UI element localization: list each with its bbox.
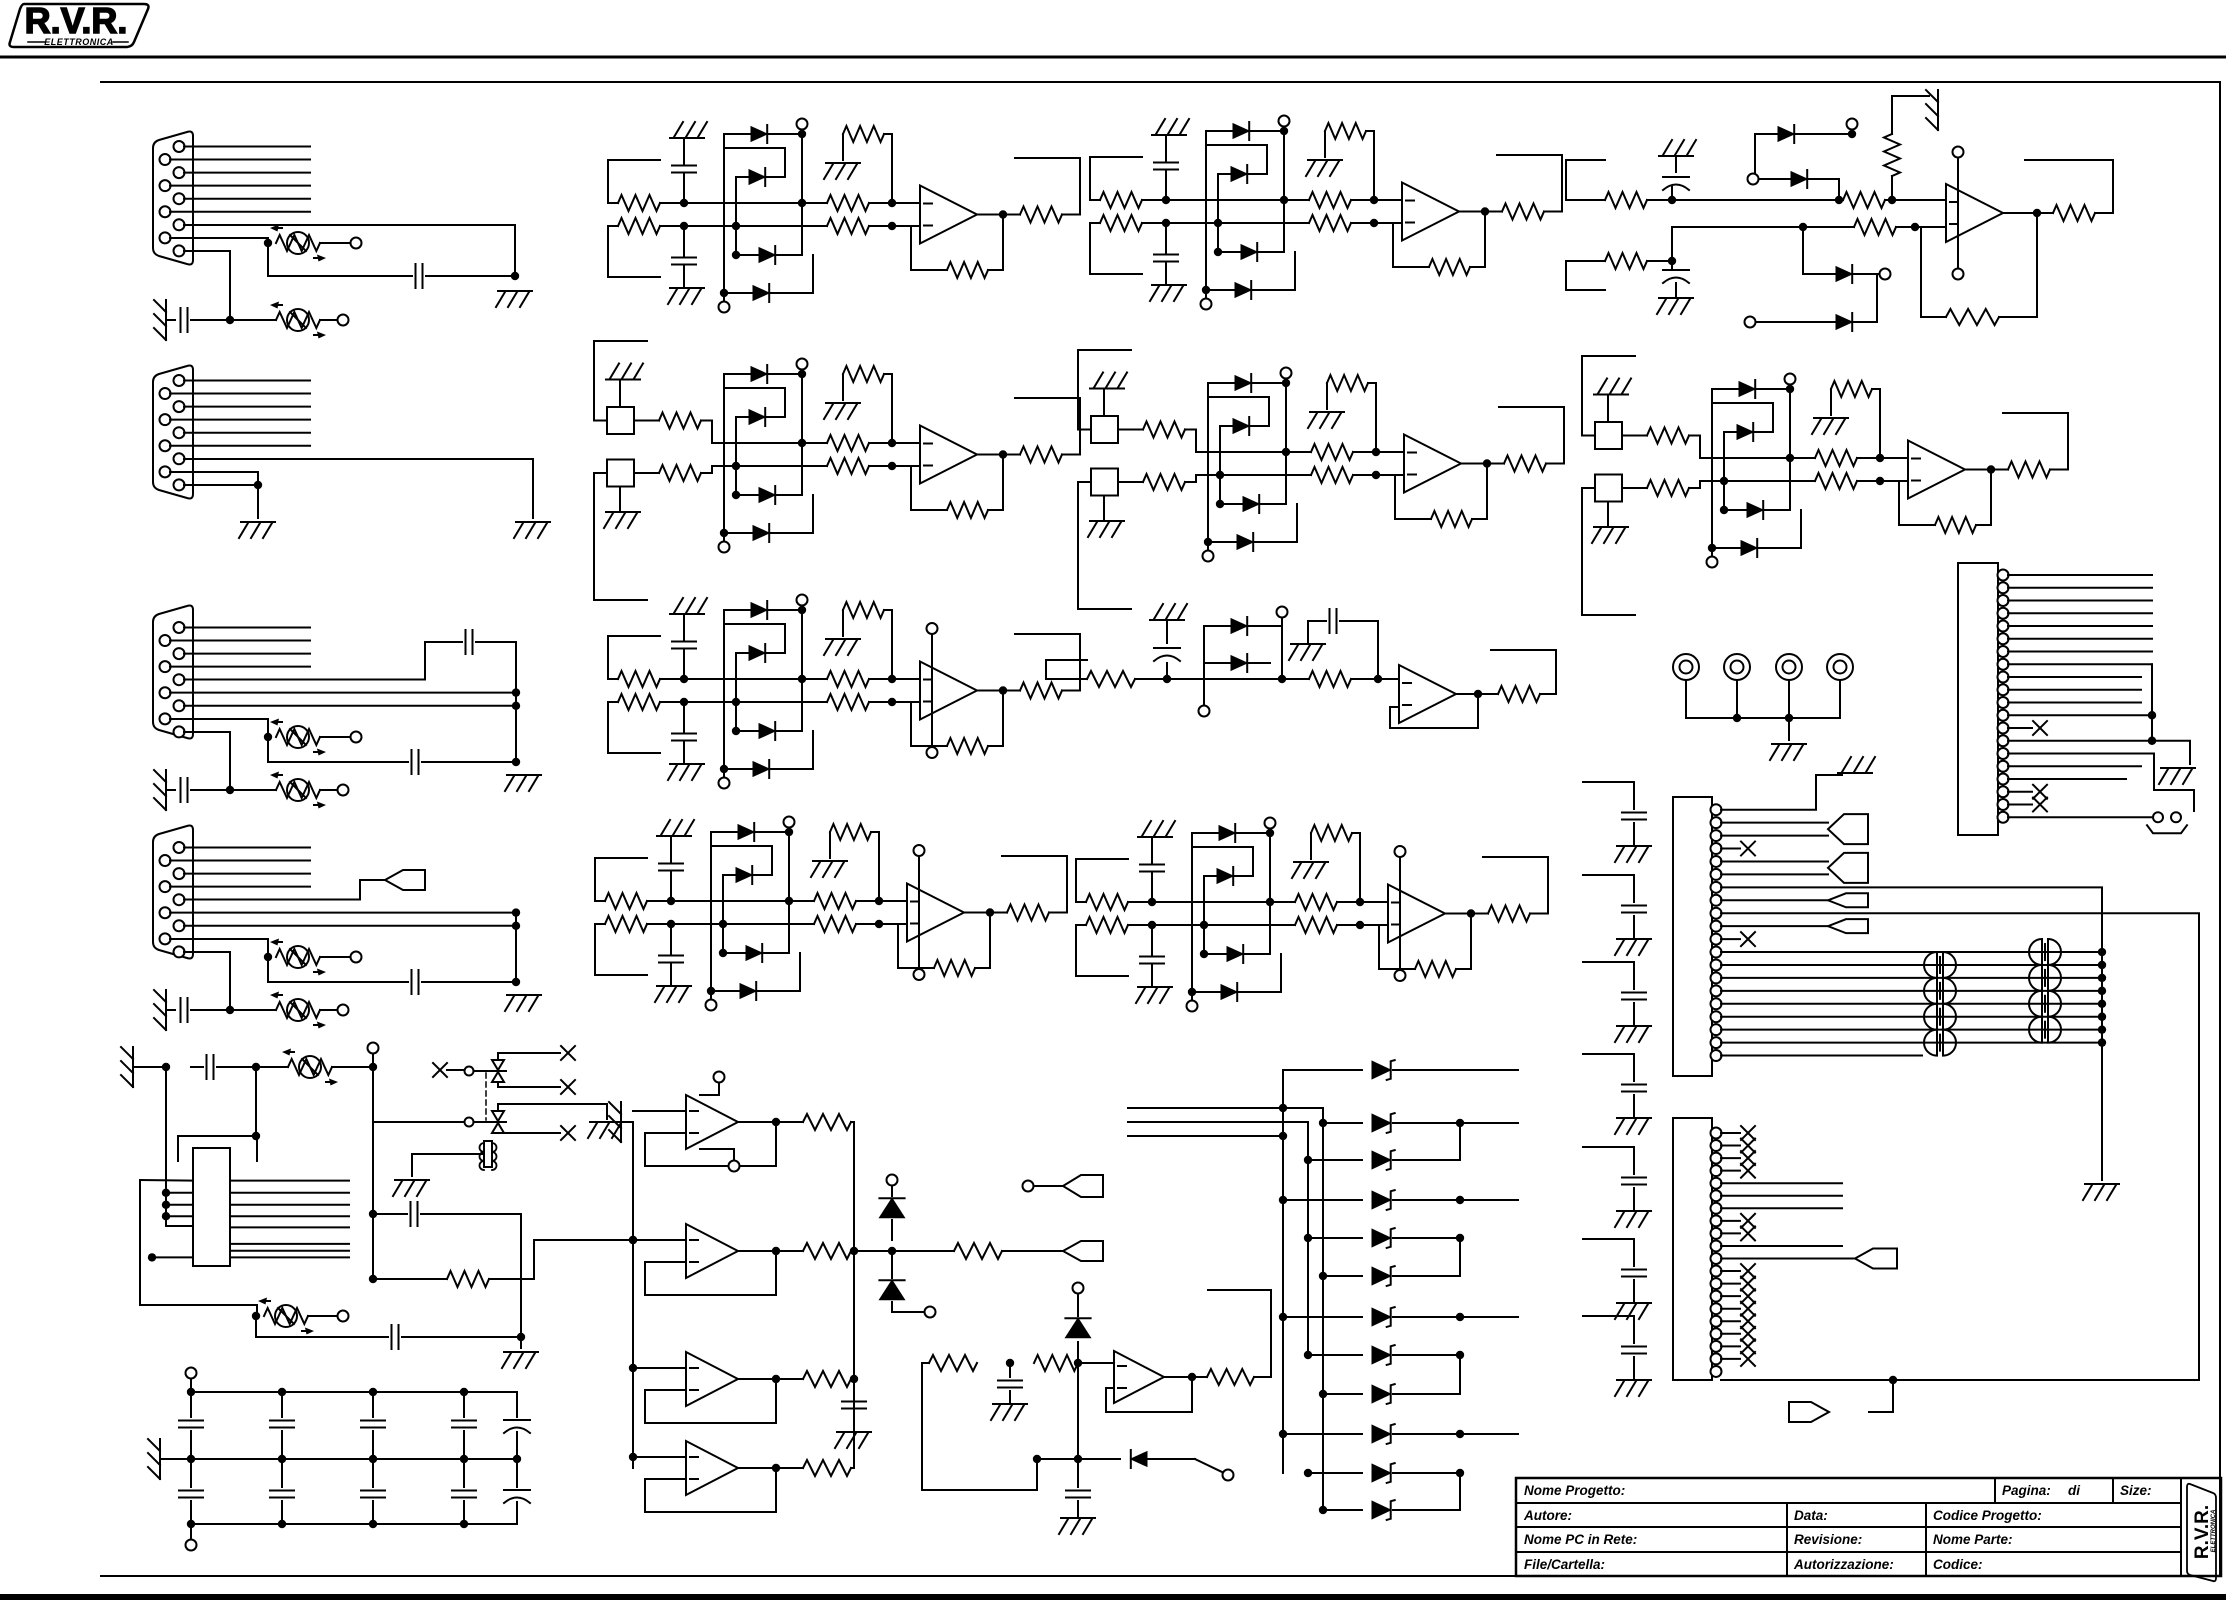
varistor RV1 <box>264 239 272 247</box>
series resistor upper U4 <box>1311 444 1353 460</box>
terminal RV8 <box>308 1315 337 1317</box>
pin J5-7 <box>1998 646 2009 657</box>
wire output U2 <box>1459 211 1502 213</box>
wire output bracket U5 <box>2003 413 2068 470</box>
wire DZ1 long <box>1393 1069 1518 1071</box>
output resistor U10 <box>2053 205 2095 221</box>
input resistor lower U2 <box>1100 215 1142 231</box>
wire U10 power <box>1957 158 1959 268</box>
wire zener feed line 1 <box>1128 1107 1323 1109</box>
terminal clamp bottom U8 <box>706 1000 717 1011</box>
wire input lines U3 <box>712 442 827 444</box>
resistor R40 <box>373 1278 447 1280</box>
capacitor lower input U9 <box>1151 925 1153 955</box>
wire J5-17 <box>2008 778 2126 780</box>
x-mark J5-19 <box>2008 804 2032 806</box>
series resistor lower U9 <box>1295 917 1337 933</box>
ground U15 C <box>993 1403 1027 1405</box>
wires J2 pins 1-6 <box>184 380 310 382</box>
wire J7-18 <box>1721 1029 2102 1031</box>
wire input lines U8 <box>699 900 814 902</box>
ground upper U2 <box>1152 134 1186 136</box>
output resistor U8 <box>1007 905 1049 921</box>
wire clamp right bus U3 <box>801 374 803 495</box>
feedback resistor U9 <box>1415 961 1456 977</box>
varistor RV2 <box>230 319 276 321</box>
capacitor C41 <box>391 1325 393 1349</box>
wire J5-14 <box>2008 740 2152 742</box>
TVS pair 2 <box>492 1111 504 1121</box>
wire J3 pin9 <box>184 732 230 790</box>
wire U7 follower feedback <box>1390 694 1478 728</box>
wire J7-2 <box>1721 822 1828 824</box>
arrow J7 C <box>1828 893 1868 907</box>
pin J8-3 <box>1711 1153 1722 1164</box>
input resistor lower U1 <box>618 218 660 234</box>
pin J7-13 <box>1711 959 1722 970</box>
IC U20 <box>193 1148 230 1266</box>
resistor R30 <box>954 1243 1002 1259</box>
pin J5-8 <box>1998 659 2009 670</box>
capacitor bank column 1 upper <box>187 1388 195 1396</box>
connector J8 box <box>1673 1118 1712 1380</box>
wire TVS2 up <box>498 1104 607 1119</box>
terminal clamp top U1 <box>797 119 808 130</box>
wire right leg <box>520 1214 522 1348</box>
output resistor U12 <box>738 1250 803 1252</box>
zener DZ8 <box>1308 1354 1362 1356</box>
terminal clamp bottom U6 <box>719 778 730 789</box>
svg-text:Data:: Data: <box>1794 1508 1828 1523</box>
wire zener pair links <box>1459 1123 1461 1160</box>
x-mark J8-15 <box>1721 1308 1740 1310</box>
ground J5 <box>2161 767 2195 769</box>
wire feedback U2 <box>1470 212 1485 268</box>
pin J8-8 <box>1711 1215 1722 1226</box>
wire J8 arrow link <box>1869 1380 1893 1412</box>
pin J8-20 <box>1711 1366 1722 1377</box>
diode clamp D1 U9 <box>1192 832 1270 834</box>
wire output bracket U3 <box>1015 398 1080 455</box>
capacitor bank column 1 lower <box>190 1459 192 1487</box>
input resistor lower U9 <box>1086 917 1128 933</box>
wire upper input bracket U6 <box>608 635 660 637</box>
output resistor U14 <box>738 1467 803 1469</box>
diode clamp D2 U2 <box>1218 173 1267 175</box>
series resistor lower U4 <box>1311 467 1353 483</box>
wire op-amp power U6 <box>931 635 933 747</box>
capacitor C4 <box>411 750 413 774</box>
ground J7-1 <box>1838 772 1872 774</box>
pin J8-14 <box>1711 1291 1722 1302</box>
stage U10 input resistor lower <box>1566 260 1605 262</box>
capacitor U10 upper <box>1671 187 1673 200</box>
ground bias U9 <box>1294 861 1328 863</box>
diode clamp D1 U4 <box>1208 382 1286 384</box>
feedback resistor U10 <box>1946 309 1999 325</box>
zener DZ5 <box>1308 1237 1362 1239</box>
wire TVS1 up <box>498 1053 560 1060</box>
diode clamp D4 U9 <box>1192 991 1281 993</box>
wire output U1 <box>977 214 1020 216</box>
wire upper input bracket U1 <box>608 159 660 161</box>
wire upper stub U3 <box>594 340 647 342</box>
feedback resistor U2 <box>1429 259 1470 275</box>
wire bias legs U2 <box>1324 131 1326 157</box>
output arrow A2 <box>1063 1241 1103 1261</box>
wire U10 output bracket <box>2025 160 2113 213</box>
series resistor lower U2 <box>1309 215 1351 231</box>
terminal clamp bottom U9 <box>1187 1001 1198 1012</box>
svg-text:Autore:: Autore: <box>1523 1508 1572 1523</box>
wire J5-8 <box>2008 663 2152 665</box>
terminal U10 D1 <box>1847 119 1858 130</box>
series resistor upper U9 <box>1295 894 1337 910</box>
input resistor upper U1 <box>618 195 660 211</box>
diode clamp D2 U4 <box>1220 425 1269 427</box>
title block rows <box>1516 1502 2181 1504</box>
wire J5-5 <box>2008 625 2152 627</box>
bias resistor U4 <box>1327 375 1368 391</box>
ground lower U2 <box>1152 284 1186 286</box>
wire J1 pin8 <box>170 237 268 239</box>
series resistor upper U1 <box>827 195 869 211</box>
wire DZ11 pair <box>1393 1472 1460 1474</box>
zener DZ9 <box>1323 1393 1362 1395</box>
capacitor upper input U1 <box>683 174 685 203</box>
pin J5-3 <box>1998 595 2009 606</box>
ground above upper box U3 <box>619 382 621 408</box>
wires IC pins right <box>230 1180 349 1182</box>
jumper box lower U4 <box>1091 469 1118 496</box>
connector J1 D-sub <box>153 132 193 265</box>
frame bottom thick line <box>0 1594 2226 1600</box>
TVS pair 1 <box>492 1060 504 1070</box>
wire feedback U9 <box>1456 914 1471 970</box>
wire output bracket U4 <box>1499 407 1564 464</box>
series resistor lower U6 <box>827 694 869 710</box>
wire lower input bracket U1 <box>607 226 609 277</box>
ground ladder 2 <box>1617 938 1651 940</box>
wire ladder unit 1 <box>1583 781 1634 783</box>
wire clamp right bus U5 <box>1789 389 1791 510</box>
wire zener bus M <box>1307 1122 1309 1355</box>
terminal V+ U8 <box>914 845 925 856</box>
output arrow J4 <box>385 870 425 890</box>
jumper box upper U4 <box>1091 416 1118 443</box>
wire J2 pin8 <box>170 472 258 485</box>
capacitor C3 <box>465 630 467 654</box>
ground bias U6 <box>826 638 860 640</box>
wire clamp right bus U6 <box>801 610 803 731</box>
wire clamp left bus U4 <box>1207 383 1209 551</box>
ground upper U6 <box>670 613 704 615</box>
wire J8-5 <box>1721 1182 1842 1184</box>
pin J7-5 <box>1711 856 1722 867</box>
diode clamp D1 U6 <box>724 609 802 611</box>
bias resistor U5 <box>1831 381 1872 397</box>
pin J8-6 <box>1711 1190 1722 1201</box>
wire U7 output <box>1456 693 1498 695</box>
terminal opto 1 <box>465 1067 474 1076</box>
ground TVS2 <box>590 1121 624 1123</box>
capacitor C6 <box>411 970 413 994</box>
capacitor U15 C <box>1006 1359 1014 1367</box>
pin J7-6 <box>1711 869 1722 880</box>
ground ladder 3 <box>1617 1025 1651 1027</box>
pin J7-10 <box>1711 921 1722 932</box>
svg-text:Codice Progetto:: Codice Progetto: <box>1933 1508 2042 1523</box>
terminal U10 V- <box>1953 269 1964 280</box>
diode clamp D3 U5 <box>1724 509 1790 511</box>
pin J7-19 <box>1711 1037 1722 1048</box>
pin J8-4 <box>1711 1165 1722 1176</box>
wire J8-6 <box>1721 1195 1842 1197</box>
terminal A1 <box>1023 1181 1034 1192</box>
resistor U15 R2 <box>1034 1355 1078 1371</box>
svg-text:Autorizzazione:: Autorizzazione: <box>1793 1557 1894 1572</box>
wire J7-8 <box>1721 899 1828 901</box>
wire clamp left bus U3 <box>723 374 725 542</box>
test point TP3 <box>1776 654 1802 680</box>
zener DZ6 <box>1323 1275 1362 1277</box>
wire bias legs U3 <box>842 374 844 400</box>
diode clamp D4 U1 <box>724 292 813 294</box>
wire J7-13 <box>1721 964 2102 966</box>
diode clamp D3 U9 <box>1204 953 1270 955</box>
diode clamp D4 U6 <box>724 768 813 770</box>
diode clamp D4 U2 <box>1206 289 1295 291</box>
feed-through capacitor FT5 <box>2029 991 2042 1017</box>
wire summed output <box>892 1250 954 1252</box>
diode U7 D2 <box>1204 662 1270 664</box>
wire DZ10 long <box>1393 1433 1518 1435</box>
capacitor ladder C4 <box>1622 1084 1646 1086</box>
diode clamp D2 U3 <box>736 416 785 418</box>
wire output U5 <box>1965 469 2008 471</box>
arrow J7 D <box>1828 919 1868 933</box>
wire J7-20 <box>1721 1055 1922 1057</box>
series resistor lower U8 <box>814 916 856 932</box>
wire upper input bracket U8 <box>595 857 647 859</box>
pin J8-2 <box>1711 1140 1722 1151</box>
x-mark J8-12 <box>1721 1270 1740 1272</box>
x-mark J8-14 <box>1721 1295 1740 1297</box>
series resistor upper U2 <box>1309 192 1351 208</box>
wire clamp right bus U8 <box>788 832 790 953</box>
wire J5-9 <box>2008 676 2141 678</box>
test point TP1 <box>1673 654 1699 680</box>
diode clamp D3 U6 <box>736 730 802 732</box>
ground ladder 6 <box>1617 1302 1651 1304</box>
input resistor upper U9 <box>1086 894 1128 910</box>
dashed link <box>485 1073 487 1120</box>
varistor RV5 <box>276 949 320 965</box>
frame right border <box>2219 82 2221 1576</box>
wire J5-7 <box>2008 651 2152 653</box>
wire row to IC area <box>165 1067 167 1226</box>
pin J8-18 <box>1711 1341 1722 1352</box>
ground U10 lower <box>1659 297 1693 299</box>
x-mark J8-9 <box>1721 1232 1740 1234</box>
op-amp U6 <box>920 662 977 720</box>
diode U7 D1 <box>1204 625 1282 627</box>
zener D21 <box>879 1280 904 1300</box>
wire lower stub U5 <box>1582 487 1595 489</box>
wire cap link <box>267 243 269 276</box>
wire input lines U1 <box>712 202 827 204</box>
ground U7 input <box>1150 619 1184 621</box>
capacitor bank top rail <box>191 1391 517 1393</box>
x-mark J7-11 <box>1721 938 1740 940</box>
ground bias U3 <box>826 402 860 404</box>
input resistor upper U5 <box>1622 435 1647 437</box>
terminal clamp top U2 <box>1279 116 1290 127</box>
wire J5-2 <box>2008 587 2152 589</box>
wire J8-11 arrow <box>1721 1258 1855 1260</box>
wire U10 feedback <box>1999 213 2037 317</box>
bias capacitor U7 <box>1291 643 1325 645</box>
capacitor C40 <box>206 1055 208 1079</box>
pin J7-9 <box>1711 908 1722 919</box>
wire U16 bracket <box>1208 1290 1271 1377</box>
wire J3 pin6 <box>170 692 516 694</box>
pin J7-3 <box>1711 830 1722 841</box>
bias resistor U1 <box>843 126 884 142</box>
output resistor U1 <box>1020 207 1062 223</box>
terminal U7 D1 <box>1277 607 1288 618</box>
wire U10 lower link <box>1671 227 1673 261</box>
wire zener bus A <box>1282 1070 1284 1473</box>
wire J7-15 <box>1721 990 2102 992</box>
terminal RV3 <box>351 732 362 743</box>
capacitor bank bottom rail <box>191 1523 517 1525</box>
wire output bracket U1 <box>1015 158 1080 215</box>
wires IC pins left <box>162 1189 170 1197</box>
pin J5-2 <box>1998 582 2009 593</box>
svg-text:Size:: Size: <box>2120 1483 2152 1498</box>
ground bias U5 <box>1814 417 1848 419</box>
terminal U15 zener <box>1073 1283 1084 1294</box>
wire feedback U1 <box>988 215 1003 271</box>
wire bias legs U5 <box>1830 389 1832 415</box>
wire upper stub U5 <box>1582 355 1635 357</box>
wire ladder unit 2 <box>1583 874 1634 876</box>
terminal RV6 <box>338 1005 349 1016</box>
svg-text:Codice:: Codice: <box>1933 1557 1983 1572</box>
input resistor upper U4 <box>1118 429 1143 431</box>
terminal clamp bottom U5 <box>1707 557 1718 568</box>
ground U10 upper <box>1659 155 1693 157</box>
op-amp U8 <box>907 884 964 942</box>
wire mid bus <box>372 1067 374 1279</box>
pin J8-13 <box>1711 1278 1722 1289</box>
wire U11 feedback loop <box>645 1122 776 1166</box>
wire J5-10 <box>2008 689 2141 691</box>
capacitor C42 <box>410 1202 412 1226</box>
diode U10 D1 <box>1755 133 1852 135</box>
op-amp U3 <box>920 426 977 484</box>
wires J3 pins 1-4 <box>184 627 310 629</box>
wire input lines U2 <box>1194 199 1309 201</box>
connector J2 D-sub <box>153 366 193 499</box>
terminal opto 2 <box>465 1118 474 1127</box>
stage U7 input resistor <box>1046 659 1087 661</box>
wire upper input bracket U2 <box>1090 156 1142 158</box>
x-mark J8-3 <box>1721 1157 1740 1159</box>
op-amp U4 <box>1404 435 1461 493</box>
svg-text:R.V.R.: R.V.R. <box>2192 1505 2213 1559</box>
input resistor upper U2 <box>1100 192 1142 208</box>
op-amp U16 <box>1114 1351 1164 1403</box>
capacitor upper input U6 <box>683 650 685 679</box>
wire input lines U4 <box>1196 451 1311 453</box>
op-amp U7 <box>1399 665 1456 723</box>
jumper box upper U5 <box>1595 422 1622 449</box>
capacitor C1 <box>415 264 417 288</box>
wire IC staple <box>178 1136 257 1161</box>
ground ladder 7 <box>1617 1379 1651 1381</box>
diode clamp D2 U6 <box>736 652 785 654</box>
pin J7-7 <box>1711 882 1722 893</box>
wire J4 pin6 <box>170 912 516 914</box>
terminal clamp bottom U3 <box>719 542 730 553</box>
capacitor lower input U6 <box>683 702 685 732</box>
pin J8-15 <box>1711 1303 1722 1314</box>
wire bias legs U4 <box>1326 383 1328 409</box>
terminal clamp top U5 <box>1785 374 1796 385</box>
wire J3 pin7 <box>184 705 516 707</box>
wire clamp right bus U1 <box>801 134 803 255</box>
wire J7-5 <box>1721 860 1828 862</box>
wire J4 bus <box>515 913 517 982</box>
series resistor lower U5 <box>1815 473 1857 489</box>
ground FL1 <box>395 1179 429 1181</box>
pin J5-18 <box>1998 786 2009 797</box>
wire J3 pin5 top loop <box>184 642 462 680</box>
wire lower input bracket U8 <box>594 924 596 975</box>
op-amp U11 <box>686 1095 738 1149</box>
zener DZ11 <box>1308 1472 1362 1474</box>
capacitor upper input U9 <box>1151 873 1153 902</box>
wire DZ5 pair <box>1393 1237 1460 1239</box>
capacitor ladder C6 <box>1622 1269 1646 1271</box>
output resistor U11 <box>738 1121 803 1123</box>
wire DZ12 pair <box>1393 1509 1460 1511</box>
bias resistor U6 <box>843 602 884 618</box>
ground lower U8 <box>657 985 691 987</box>
capacitor upper input U2 <box>1165 171 1167 200</box>
stage U10 input resistor upper <box>1566 159 1605 161</box>
pin J8-5 <box>1711 1178 1722 1189</box>
wire U11 to bus <box>851 1121 854 1123</box>
wires J4 pins 1-4 <box>184 847 310 849</box>
wire bias legs U1 <box>842 134 844 160</box>
terminal D21 <box>891 1302 893 1312</box>
feedback resistor U8 <box>934 960 975 976</box>
ground J4 right <box>507 994 541 996</box>
capacitor bank column 4 upper <box>460 1388 468 1396</box>
input resistor lower U3 <box>634 472 659 474</box>
wire J8-7 <box>1721 1207 1842 1209</box>
ground above upper box U4 <box>1103 391 1105 417</box>
terminal clamp top U9 <box>1265 818 1276 829</box>
ground lower U1 <box>670 287 704 289</box>
wire J3 pin8 <box>170 719 268 737</box>
ground C30 <box>837 1431 871 1433</box>
wire J2 pin7 <box>184 459 533 518</box>
ground ladder 1 <box>1617 845 1651 847</box>
